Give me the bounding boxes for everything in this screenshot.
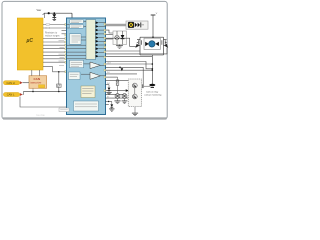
node junction split: [58, 71, 60, 73]
resistor series row1: [46, 24, 50, 26]
svg-text:CAN: CAN: [34, 77, 41, 81]
internal wires comparators: [81, 64, 106, 76]
node junction on VBAT rail: [48, 12, 50, 14]
main IC U1 system basis chip: [67, 18, 106, 115]
wire pin b: [106, 80, 130, 82]
pin boxes on IC right edge: [104, 23, 106, 91]
block voltage regulator 2: [70, 25, 84, 29]
frame border: [2, 1, 167, 119]
node junction tap3: [152, 69, 154, 71]
svg-text:reduce surges: reduce surges: [45, 34, 60, 37]
capacitor C1 to ground: [149, 84, 155, 88]
internal wires to column: [67, 22, 87, 59]
resistor R2 vertical: [116, 77, 119, 96]
microcontroller uC block: [17, 18, 43, 70]
ground under Q3: [114, 101, 120, 104]
corner tag GND: [59, 108, 69, 112]
text marks regulators: [71, 21, 82, 27]
wires arrows to right edge: [99, 23, 106, 57]
wire IC bottom right pin 1: [106, 101, 112, 103]
wire uC pin row 2: [43, 27, 67, 29]
pin name smudges left side: [59, 41, 65, 66]
wire uC pin row 9: [43, 58, 67, 60]
wire VBAT to bridge: [152, 15, 154, 37]
wire bridge bottom rail: [140, 54, 164, 56]
wire bridge top rail: [140, 36, 164, 38]
svg-text:Coils or relay: Coils or relay: [146, 91, 159, 94]
wire monitor box to ground: [134, 107, 136, 113]
wire sense tap2: [106, 63, 153, 65]
wire stub row a: [62, 29, 67, 31]
wire CAN L elbow: [22, 92, 25, 95]
ground under D1: [53, 19, 57, 20]
wire CAN H to transceiver: [23, 82, 29, 84]
resistor R split termination: [57, 84, 62, 87]
comparator A1: [90, 62, 101, 69]
wire transceiver bottom to CAN L line: [32, 88, 34, 91]
wire VBAT rail elbow into IC top: [71, 13, 73, 18]
wire pin f: [106, 97, 130, 99]
wire sense tap3: [106, 69, 153, 71]
frame bottom shadow: [3, 117, 167, 119]
label tag on CAN transceiver: [39, 85, 45, 88]
wire IC bottom right pin 2: [106, 104, 109, 106]
node junction bottom pin: [108, 101, 109, 102]
svg-text:TLE 7810: TLE 7810: [36, 115, 46, 117]
ground under lamp box: [116, 46, 123, 49]
wire uC pin row 8: [43, 54, 67, 56]
wire bridge center tap down: [151, 55, 153, 84]
wire lower bus line: [20, 97, 67, 108]
wire uC pin row 4: [43, 41, 67, 43]
wire uC pin row 11 elbow: [43, 67, 67, 72]
output arrows of driver column: [96, 21, 99, 57]
wire resistor to CAN L: [58, 87, 60, 91]
svg-text:VBAT: VBAT: [37, 9, 42, 12]
block output driver column: [86, 20, 96, 60]
wire pin c to diode stack: [106, 84, 110, 86]
pin boxes on IC left edge: [65, 24, 67, 73]
motor M1: [144, 38, 160, 49]
transistor Q3 with disable cross: [115, 94, 120, 101]
ground under monitor box: [132, 113, 138, 116]
connector CAN L: [3, 93, 22, 97]
wire RxD: [39, 70, 41, 76]
arrow into monitor box: [126, 89, 129, 92]
VBAT terminal: [37, 9, 46, 15]
wire TxD: [31, 70, 33, 76]
node junction at diode top: [53, 12, 55, 14]
block voltage regulator 1: [70, 20, 84, 24]
diode D1 reverse protection to ground: [52, 13, 56, 19]
svg-text:transceiver: transceiver: [30, 82, 41, 85]
VBAT terminal right: [151, 13, 158, 15]
wire lamp feed 1: [106, 30, 114, 33]
svg-text:Resistors to: Resistors to: [45, 32, 58, 35]
wire uC pin row 3: [43, 38, 67, 40]
wire uC pin row 6: [43, 48, 67, 50]
wire uC pin row 1: [43, 24, 67, 26]
wire lamp box to ground: [119, 45, 121, 46]
block SPI interface: [70, 60, 84, 68]
transistor Q2 high-side right: [162, 37, 168, 55]
wire relay drive 1: [106, 23, 127, 25]
ground under D4: [106, 92, 111, 94]
svg-text:µC: µC: [26, 38, 34, 44]
wire sense tap1: [106, 56, 153, 58]
block temperature monitoring: [74, 101, 99, 111]
transistor Q4 with disable cross: [122, 94, 127, 101]
wire VBAT to uC VCC: [44, 13, 46, 18]
svg-text:CAN L: CAN L: [7, 93, 15, 97]
terminal bar monitor: [142, 84, 144, 88]
connector CAN H: [3, 81, 22, 85]
diode D4 down: [108, 85, 111, 93]
wire lamp feed 2: [106, 34, 114, 36]
ground under Q4: [122, 101, 128, 104]
wire gate drive left: [106, 38, 137, 46]
wire VBAT rail: [44, 12, 72, 14]
wire sense bottom rail: [106, 50, 141, 52]
monitor box dashed: [128, 79, 142, 107]
block CAN cell: [69, 72, 81, 80]
wire monitor input with arrow: [106, 90, 126, 92]
label EMI resistors note: [45, 32, 60, 38]
wire lamp feed 3: [106, 38, 114, 40]
CAN transceiver module: [29, 76, 47, 89]
node junction bridge top: [152, 36, 154, 38]
ground under D3: [109, 109, 114, 111]
wire monitor right branch: [106, 67, 144, 86]
diode D3 down: [110, 102, 113, 109]
wire pin e: [106, 93, 125, 95]
node junction arrow wire: [119, 67, 121, 69]
wire monitor bar to capacitor: [144, 85, 151, 87]
wire sense elbow: [106, 62, 153, 69]
pin labels right side: [107, 62, 112, 98]
wire short pin a: [106, 73, 138, 75]
LED D2: [121, 31, 125, 45]
wire resistor feed: [106, 76, 118, 78]
wire gate drive right: [106, 48, 168, 54]
comparator A2: [90, 72, 101, 79]
wire stub row b: [62, 33, 67, 35]
svg-text:CAN H: CAN H: [7, 81, 15, 85]
arrow down indicator: [121, 68, 124, 71]
label coil monitoring text: [144, 91, 162, 97]
node junction tap2: [152, 68, 154, 70]
block failure diagnostic: [81, 86, 95, 98]
node junction CAN L: [32, 91, 34, 93]
wire split branch down: [58, 72, 60, 84]
transistor Q1 high-side left: [136, 37, 142, 55]
wire uC pin row 5: [43, 44, 67, 46]
node junction resistor CAN L: [58, 91, 60, 93]
wire uC pin row 10: [43, 61, 67, 63]
wire uC pin row 7: [43, 51, 67, 53]
load box lamp and LED: [113, 31, 127, 45]
wire CAN L bus: [23, 91, 66, 93]
load box bulb and diodes: [126, 21, 148, 29]
resistor series row2: [46, 27, 50, 29]
lamp L1: [115, 31, 119, 45]
block oscillator: [70, 34, 82, 45]
node junction tap2b: [152, 63, 154, 65]
svg-text:contact monitoring: contact monitoring: [144, 93, 162, 96]
wire relay drive 2: [106, 25, 127, 27]
